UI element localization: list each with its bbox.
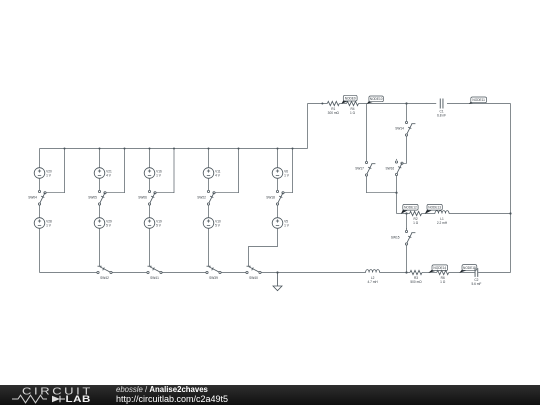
wire V29 down (99, 228, 101, 267)
voltage source V28 (34, 218, 52, 229)
junction SW15 at row (405, 212, 407, 214)
switch SW04 (38, 190, 46, 205)
wire down to SW14 (406, 104, 408, 122)
wire V5 jog down to SW40 (249, 228, 278, 267)
junction branch SW05 at top bus (99, 148, 101, 150)
svg-text:SW06: SW06 (138, 196, 147, 200)
node label NODE14 (428, 265, 447, 273)
wire bypass SW18 (284, 149, 292, 193)
svg-text:5 V: 5 V (156, 223, 162, 227)
wire SW06 to V19 (149, 205, 151, 218)
voltage source V5 (272, 218, 290, 229)
ground (273, 273, 282, 291)
wire V11 to SW22 (208, 178, 210, 190)
voltage source V16 (144, 168, 162, 179)
junction SW15 at bottom bus (405, 271, 407, 273)
resistor R6 (437, 270, 449, 284)
svg-text:SW41: SW41 (150, 276, 159, 280)
wire bottom bus seg2 (112, 272, 147, 274)
wire right edge (510, 104, 512, 273)
junction bypass SW22 at top bus (238, 148, 240, 150)
voltage source V10 (203, 218, 221, 229)
wire L1 to right edge (449, 213, 511, 215)
svg-text:300 mΩ: 300 mΩ (328, 111, 340, 115)
svg-text:4 V: 4 V (106, 173, 112, 177)
wire riser (307, 104, 309, 149)
voltage source V21 (94, 168, 112, 179)
voltage source V29 (94, 218, 112, 229)
wire row down to SW15 (406, 214, 408, 231)
switch SW39 (206, 266, 221, 280)
wire bottom bus seg4 (221, 272, 246, 274)
wire R1 to R4 (339, 103, 346, 105)
wire top bus (40, 148, 308, 150)
wire bottom bus seg1 (40, 272, 98, 274)
junction branch SW06 at top bus (149, 148, 151, 150)
switch SW42 (97, 266, 112, 280)
svg-text:NODE15: NODE15 (463, 266, 476, 270)
switch SW15 (405, 228, 415, 245)
wire bypass SW04 (46, 149, 64, 193)
node label NODE9 (341, 95, 357, 104)
wire bypass SW05 (106, 149, 124, 193)
junction row at right edge (509, 212, 511, 214)
wire C1 to right edge (447, 103, 511, 105)
inductor L1 (435, 211, 449, 225)
node label NODE12 (401, 204, 418, 214)
wire V19 down (149, 228, 151, 267)
wire R2 to L1 (422, 213, 435, 215)
wire bottom bus seg8 (449, 272, 475, 274)
svg-text:SW16: SW16 (386, 167, 395, 171)
svg-text:SW18: SW18 (266, 196, 275, 200)
node label NODE10 (367, 96, 384, 104)
junction bypass SW18 at top bus (292, 148, 294, 150)
wire bottom bus seg9 (478, 272, 510, 274)
wire R4 to C1 (359, 103, 437, 105)
resistor R1 (327, 101, 339, 115)
wire bottom bus seg3 (162, 272, 207, 274)
svg-text:SW40: SW40 (249, 276, 258, 280)
svg-text:NODE10: NODE10 (370, 97, 383, 101)
junction bypass SW05 at top bus (124, 148, 126, 150)
voltage source V19 (144, 218, 162, 229)
svg-text:1 V: 1 V (46, 223, 52, 227)
junction branch SW22 at top bus (208, 148, 210, 150)
switch SW14 (405, 121, 415, 136)
wire branch V6 top (277, 149, 279, 169)
svg-text:1 V: 1 V (284, 223, 290, 227)
svg-text:NODE13: NODE13 (428, 206, 441, 210)
wire branch V11 top (208, 149, 210, 169)
wire V20 to SW04 (39, 178, 41, 190)
svg-text:4 V: 4 V (215, 173, 221, 177)
switch SW40 (246, 266, 261, 280)
junction bypass SW06 at top bus (173, 148, 175, 150)
voltage source V20 (34, 168, 52, 179)
svg-text:1 Ω: 1 Ω (440, 280, 446, 284)
svg-text:NODE9: NODE9 (345, 97, 356, 101)
wire V16 to SW06 (149, 178, 151, 190)
switch SW16 (395, 159, 403, 176)
wire SW22 to V10 (208, 205, 210, 218)
capacitor C2 (471, 268, 481, 286)
wire bottom bus seg6 (380, 272, 410, 274)
junction SW14 at top wire (405, 102, 407, 104)
inductor L2 (366, 270, 380, 284)
CircuitLab logo (0, 384, 1, 386)
svg-text:NODE12: NODE12 (404, 206, 417, 210)
wire branch V20 top (39, 149, 41, 169)
junction ground at bottom bus (276, 271, 278, 273)
node label NODE15 (459, 265, 477, 273)
svg-text:SW05: SW05 (88, 196, 97, 200)
wire V21 to SW05 (99, 178, 101, 190)
wire SW14 to SW16 throw (403, 136, 406, 163)
wire junction down to row (396, 193, 398, 214)
svg-text:SW15: SW15 (391, 236, 400, 240)
wire SW05 to V29 (99, 205, 101, 218)
svg-text:NODE14: NODE14 (433, 266, 446, 270)
wire bottom bus seg5 (261, 272, 366, 274)
svg-text:500 mΩ: 500 mΩ (410, 280, 422, 284)
junction SW16 SW17 (395, 192, 397, 194)
svg-text:SW42: SW42 (100, 276, 109, 280)
svg-text:SW04: SW04 (28, 196, 37, 200)
node label NODE13 (425, 204, 443, 214)
wire SW04 to V28 (39, 205, 41, 218)
junction bypass SW04 at top bus (64, 148, 66, 150)
svg-text:SW17: SW17 (355, 167, 364, 171)
wire bypass SW22 (215, 149, 238, 193)
switch SW05 (98, 190, 106, 205)
switch SW18 (276, 190, 284, 205)
wire SW18 to V5 (277, 205, 279, 218)
svg-text:1 V: 1 V (46, 173, 52, 177)
wire riser to R1 (308, 103, 328, 105)
switch SW06 (148, 190, 156, 205)
svg-text:5 V: 5 V (215, 223, 221, 227)
wire V6 to SW18 (277, 178, 279, 190)
svg-text:2.2 mH: 2.2 mH (437, 221, 448, 225)
svg-text:1 V: 1 V (156, 173, 162, 177)
switch SW41 (147, 266, 162, 280)
wire branch V21 top (99, 149, 101, 169)
svg-text:5.6 mF: 5.6 mF (471, 282, 481, 286)
voltage source V6 (272, 168, 290, 179)
wire row to R2 (397, 213, 410, 215)
wire SW15 to bottom bus (406, 245, 408, 272)
voltage source V11 (203, 168, 221, 179)
wire SW17 to junction (367, 176, 396, 193)
wire V28 down (39, 228, 41, 273)
svg-text:6.8 nF: 6.8 nF (437, 114, 446, 118)
node label NODE11 (469, 97, 487, 104)
svg-text:SW39: SW39 (209, 276, 218, 280)
switch SW17 (365, 161, 375, 176)
svg-text:5 V: 5 V (106, 223, 112, 227)
svg-text:SW22: SW22 (197, 196, 206, 200)
resistor R2 (410, 211, 422, 225)
wire NODE10 down to SW17 (366, 104, 368, 162)
switch SW22 (207, 190, 215, 205)
svg-text:1 V: 1 V (284, 173, 290, 177)
wire SW16 down (396, 176, 398, 193)
junction branch SW18 at top bus (277, 148, 279, 150)
wire branch V16 top (149, 149, 151, 169)
svg-text:NODE11: NODE11 (472, 98, 485, 102)
wire bottom bus seg7 (422, 272, 437, 274)
resistor R3 (410, 270, 422, 284)
svg-text:1 Ω: 1 Ω (413, 221, 419, 225)
svg-text:SW14: SW14 (395, 127, 404, 131)
junction wire seam (321, 103, 323, 105)
svg-text:1 Ω: 1 Ω (350, 111, 356, 115)
wire bypass SW06 (156, 149, 174, 193)
capacitor C1 (437, 99, 446, 118)
wire V10 down (208, 228, 210, 267)
svg-text:4.7 mH: 4.7 mH (367, 280, 378, 284)
resistor R4 (347, 101, 359, 115)
